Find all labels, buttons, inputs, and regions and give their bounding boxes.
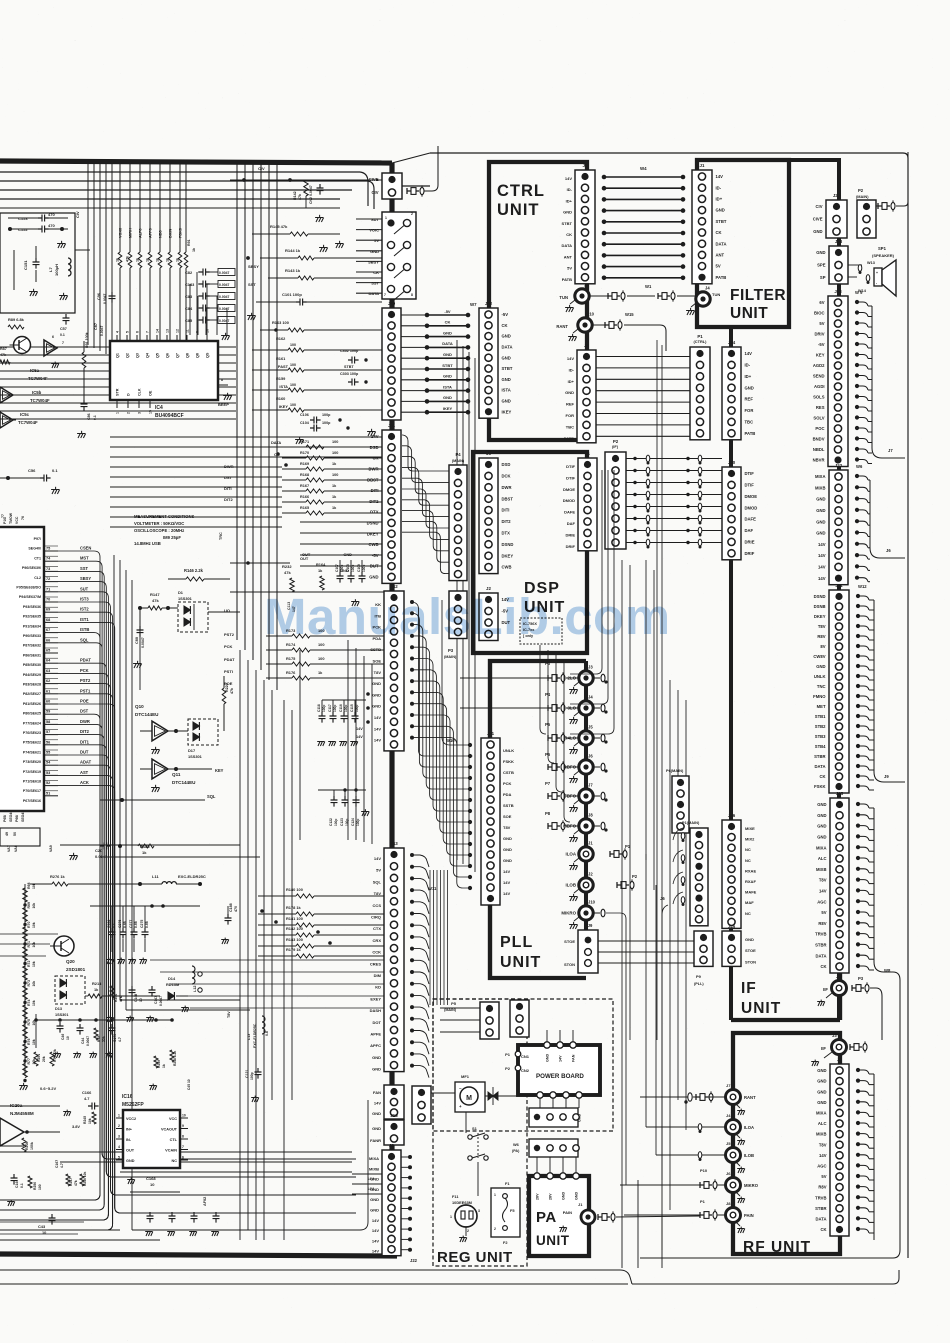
svg-text:CL2: CL2 (34, 576, 41, 580)
svg-text:P81/SE626: P81/SE626 (23, 702, 41, 706)
svg-text:TC7W04F: TC7W04F (28, 376, 48, 381)
svg-text:1k: 1k (142, 850, 147, 855)
svg-text:MIXB: MIXB (816, 1132, 826, 1137)
svg-text:0.1: 0.1 (52, 468, 58, 473)
svg-text:R246 10k: R246 10k (83, 1172, 87, 1186)
svg-text:CIRQ: CIRQ (371, 915, 381, 920)
svg-text:1k: 1k (116, 258, 120, 262)
svg-text:KEY: KEY (215, 768, 224, 773)
svg-text:D: D (127, 393, 131, 396)
ground (54, 362, 56, 364)
svg-text:−: − (459, 1086, 462, 1091)
svg-text:CCS: CCS (373, 903, 382, 908)
svg-text:CIV: CIV (75, 211, 80, 218)
FILTER UNIT box (697, 160, 789, 327)
svg-text:J4: J4 (705, 286, 710, 291)
svg-text:13: 13 (166, 329, 170, 333)
svg-text:CK: CK (566, 232, 572, 237)
svg-text:ILOB: ILOB (744, 1153, 754, 1158)
svg-text:0.6~5.2V: 0.6~5.2V (40, 1086, 56, 1091)
svg-text:Q3: Q3 (136, 353, 140, 358)
svg-text:W1: W1 (645, 284, 652, 289)
buffer IC5c (0, 412, 13, 428)
resistor R91 100k (82, 352, 86, 368)
svg-text:71: 71 (46, 587, 50, 591)
svg-text:J9: J9 (884, 774, 889, 779)
svg-text:PAIN: PAIN (563, 1210, 572, 1215)
svg-text:2: 2 (118, 1124, 120, 1128)
wire P2 plug (876, 205, 880, 207)
RANT cable plugs (693, 1096, 725, 1098)
svg-text:R167: R167 (300, 484, 309, 488)
svg-text:FAN: FAN (373, 1090, 381, 1095)
svg-text:62: 62 (46, 679, 50, 683)
svg-text:PLL: PLL (500, 934, 533, 951)
svg-text:DKEY: DKEY (502, 553, 514, 558)
svg-text:PSTI: PSTI (224, 669, 233, 674)
svg-text:10: 10 (150, 1182, 155, 1187)
svg-text:P80/SE625: P80/SE625 (23, 712, 41, 716)
svg-text:1SS301: 1SS301 (55, 1013, 69, 1017)
svg-text:GND: GND (816, 519, 825, 524)
svg-text:DSNB: DSNB (814, 604, 826, 609)
svg-text:70: 70 (46, 598, 50, 602)
svg-text:5: 5 (118, 1156, 120, 1160)
svg-text:TNC: TNC (817, 684, 826, 689)
svg-text:P77/SE624: P77/SE624 (23, 721, 41, 725)
svg-text:SST: SST (80, 566, 88, 571)
svg-text:0.1: 0.1 (60, 333, 65, 337)
svg-text:SST: SST (248, 282, 256, 287)
svg-text:REF: REF (745, 397, 754, 402)
svg-text:DATA: DATA (815, 1217, 826, 1222)
svg-text:C80: C80 (135, 637, 139, 644)
svg-text:CN2 0.0047: CN2 0.0047 (309, 185, 313, 204)
svg-text:STON: STON (564, 962, 575, 967)
svg-text:GND: GND (817, 813, 826, 818)
svg-text:14V: 14V (819, 1153, 827, 1158)
svg-text:J1: J1 (585, 451, 590, 456)
svg-text:1: 1 (450, 1215, 452, 1219)
svg-text:IC4: IC4 (155, 405, 163, 411)
svg-text:GND: GND (443, 352, 452, 357)
svg-text:R163 100: R163 100 (272, 320, 289, 325)
svg-text:0.0047: 0.0047 (219, 283, 229, 287)
svg-text:10: 10 (206, 329, 210, 333)
svg-text:FOR: FOR (566, 413, 575, 418)
svg-text:W4: W4 (640, 166, 647, 171)
svg-text:DATA: DATA (815, 953, 826, 958)
svg-text:C148: C148 (134, 994, 138, 1002)
svg-text:14V: 14V (818, 565, 826, 570)
svg-text:12: 12 (176, 329, 180, 333)
svg-text:GND: GND (372, 704, 381, 709)
svg-text:47k: 47k (126, 256, 130, 262)
svg-text:MIXA: MIXA (816, 845, 826, 850)
svg-text:IN-: IN- (126, 1138, 132, 1142)
svg-text:SOLV: SOLV (813, 416, 824, 421)
svg-text:GND: GND (370, 1197, 379, 1202)
svg-text:100p: 100p (333, 705, 337, 712)
svg-text:T8V: T8V (374, 670, 382, 675)
svg-text:1: 1 (385, 216, 387, 220)
svg-text:IIF: IIF (823, 987, 828, 992)
svg-text:9: 9 (182, 1124, 184, 1128)
svg-text:J1: J1 (578, 1202, 583, 1207)
svg-text:69: 69 (46, 608, 50, 612)
svg-text:R146 2.2k: R146 2.2k (184, 568, 204, 573)
svg-text:ALC: ALC (818, 856, 827, 861)
connector P9 (PLL) (694, 931, 713, 966)
svg-text:NC: NC (745, 847, 751, 852)
svg-text:VCC: VCC (169, 1117, 177, 1121)
svg-text:GND: GND (817, 1079, 826, 1084)
svg-text:P70/SE617: P70/SE617 (23, 789, 41, 793)
svg-text:J9: J9 (588, 923, 593, 928)
svg-text:ID-: ID- (567, 187, 573, 192)
ground (225, 333, 227, 336)
svg-text:CLK: CLK (138, 388, 142, 396)
svg-text:0.0047: 0.0047 (103, 294, 107, 304)
svg-text:C277: C277 (129, 920, 133, 928)
svg-text:10k: 10k (32, 1000, 36, 1006)
svg-text:IST2: IST2 (80, 607, 89, 612)
svg-text:100p: 100p (322, 705, 326, 712)
svg-text:28V: 28V (536, 1193, 540, 1200)
svg-text:7: 7 (146, 331, 150, 333)
svg-text:R168: R168 (300, 473, 309, 477)
svg-text:R68: R68 (27, 883, 31, 889)
svg-text:W6: W6 (513, 1142, 520, 1147)
svg-text:J8: J8 (726, 1201, 731, 1206)
svg-text:DMOD: DMOD (745, 505, 758, 510)
REG UNIT dashed boundary (433, 999, 613, 1131)
svg-text:14V: 14V (716, 174, 724, 179)
svg-text:14V: 14V (567, 356, 574, 361)
svg-text:DIT2: DIT2 (502, 519, 512, 524)
svg-text:T8V: T8V (819, 1142, 827, 1147)
svg-text:J6: J6 (584, 343, 589, 348)
svg-text:J24: J24 (728, 340, 736, 345)
svg-text:DIT2: DIT2 (369, 499, 379, 504)
main unit bottom border (0, 1254, 397, 1256)
svg-text:R73: R73 (27, 980, 31, 986)
svg-text:DSND: DSND (367, 521, 379, 526)
svg-text:P75/SE622: P75/SE622 (23, 741, 41, 745)
svg-text:100: 100 (290, 363, 296, 367)
svg-text:REF: REF (566, 402, 575, 407)
svg-text:P6(MAIN): P6(MAIN) (666, 768, 684, 773)
svg-text:DWR: DWR (80, 719, 90, 724)
svg-text:R276 1k: R276 1k (50, 874, 66, 879)
svg-text:47k: 47k (230, 688, 234, 694)
svg-text:DITI: DITI (502, 508, 510, 513)
svg-text:CK: CK (502, 323, 508, 328)
svg-text:VCAOUT: VCAOUT (161, 1128, 178, 1132)
coax J1 ILOA (579, 847, 593, 861)
svg-text:3.8V: 3.8V (72, 1124, 80, 1129)
svg-text:R144 1k: R144 1k (285, 248, 301, 253)
wire from pin 67 (0, 633, 100, 1200)
svg-text:MST: MST (80, 556, 89, 561)
bundle J11 to P4 (402, 435, 449, 471)
svg-text:77: 77 (1, 514, 5, 518)
wire from pin 60 (58, 704, 356, 1213)
svg-text:470: 470 (234, 906, 238, 912)
long horizontals lower (60, 844, 240, 846)
svg-text:DATA: DATA (502, 345, 513, 350)
svg-text:R213: R213 (92, 981, 102, 986)
main unit right border spine (389, 163, 394, 1256)
wire bend top (360, 172, 368, 206)
wires P2 to J30 with beads (626, 458, 722, 460)
svg-text:REG UNIT: REG UNIT (437, 1249, 513, 1266)
svg-text:IM9 25pF: IM9 25pF (163, 535, 181, 540)
ground (23, 1083, 25, 1086)
RF UNIT box (733, 1033, 840, 1254)
svg-text:ADAT: ADAT (80, 760, 92, 765)
svg-text:C56: C56 (28, 468, 36, 473)
svg-text:C43: C43 (38, 1224, 46, 1229)
svg-text:RXAF: RXAF (745, 879, 756, 884)
svg-text:IC5a: IC5a (30, 368, 40, 373)
svg-text:-5V: -5V (818, 342, 825, 347)
connector J9 pll STOE/STON (578, 930, 598, 973)
wire (13, 250, 15, 290)
PA UNIT box (529, 1176, 589, 1256)
svg-text:P92/SE635: P92/SE635 (23, 615, 41, 619)
svg-text:P94/SE637/M: P94/SE637/M (19, 595, 41, 599)
svg-text:Q1: Q1 (116, 353, 120, 358)
bus W9 to J7 (871, 306, 873, 448)
svg-text:4: 4 (118, 1145, 120, 1149)
svg-text:R180 100: R180 100 (286, 887, 303, 892)
svg-text:GND: GND (563, 210, 572, 215)
svg-text:68: 68 (46, 618, 50, 622)
svg-text:C45 10: C45 10 (187, 1079, 191, 1090)
wires STOE STON to P9 (598, 940, 694, 942)
svg-text:0.0047: 0.0047 (219, 307, 229, 311)
svg-text:J12: J12 (485, 301, 493, 306)
wire fan W7 (425, 313, 430, 318)
wires ILOA/ILOB/MIKRO to RF (632, 854, 634, 1127)
svg-text:SEG40/: SEG40/ (28, 547, 41, 551)
svg-text:J3: J3 (486, 451, 491, 456)
svg-text:ISTA: ISTA (443, 384, 452, 389)
svg-text:1k: 1k (162, 1064, 166, 1068)
svg-text:R77: R77 (27, 1058, 31, 1064)
svg-text:T8V: T8V (819, 878, 827, 883)
connector FAN strip (384, 1085, 404, 1119)
svg-text:+: + (459, 1104, 462, 1109)
svg-text:J6: J6 (660, 896, 665, 901)
svg-text:0.0047: 0.0047 (100, 326, 104, 336)
svg-text:P1: P1 (700, 1199, 706, 1204)
svg-text:4.7: 4.7 (84, 1096, 89, 1101)
svg-text:J10: J10 (588, 900, 596, 905)
svg-text:C82: C82 (185, 270, 193, 275)
wire from pin 75 (0, 551, 100, 1200)
svg-text:P2: P2 (632, 874, 638, 879)
svg-text:(MAIN): (MAIN) (444, 655, 457, 659)
svg-text:C87: C87 (94, 323, 98, 330)
vertical wire bundle center-left (113, 555, 115, 1000)
svg-text:W10: W10 (446, 738, 455, 743)
svg-text:AGC: AGC (817, 899, 826, 904)
bus W12 to J9 (873, 600, 875, 772)
svg-text:J8: J8 (588, 813, 593, 818)
svg-text:GND: GND (443, 330, 452, 335)
svg-text:CK: CK (820, 964, 826, 969)
svg-text:Q2: Q2 (126, 353, 130, 358)
svg-text:3: 3 (478, 1209, 480, 1213)
svg-text:R169: R169 (300, 462, 309, 466)
unit spine vertical (729, 327, 733, 347)
svg-text:0.1: 0.1 (112, 923, 116, 928)
resistor R91 1k (184, 252, 188, 268)
svg-text:C44: C44 (81, 1038, 85, 1044)
svg-text:14V: 14V (367, 1187, 374, 1191)
svg-text:DRIV: DRIV (814, 332, 824, 337)
svg-text:0.68: 0.68 (145, 921, 149, 928)
svg-text:FOR: FOR (745, 408, 754, 413)
svg-text:ID+: ID+ (716, 197, 723, 202)
svg-text:14V: 14V (559, 1055, 563, 1062)
svg-text:R176: R176 (286, 670, 296, 675)
svg-text:CWB: CWB (368, 542, 378, 547)
svg-text:MF1: MF1 (461, 1074, 470, 1079)
svg-text:PCK: PCK (224, 644, 233, 649)
svg-text:DAFE: DAFE (564, 510, 575, 515)
svg-text:GND: GND (503, 836, 512, 841)
svg-text:SBSY: SBSY (80, 576, 91, 581)
svg-text:IKEY: IKEY (443, 406, 453, 411)
svg-text:C167: C167 (55, 1160, 59, 1168)
PLL UNIT box (490, 661, 586, 978)
svg-text:100: 100 (332, 473, 338, 477)
svg-text:Q7: Q7 (176, 353, 180, 358)
svg-text:IST1: IST1 (80, 617, 89, 622)
svg-text:P72/SE619: P72/SE619 (23, 770, 41, 774)
svg-text:TUN: TUN (712, 292, 720, 297)
svg-text:SEG45: SEG45 (21, 811, 25, 822)
svg-text:GND: GND (126, 1159, 135, 1163)
wires reg (431, 1092, 455, 1094)
svg-text:CTX: CTX (373, 926, 381, 931)
PA top pins (534, 1173, 540, 1179)
svg-text:DST: DST (80, 709, 89, 714)
svg-text:TUN: TUN (559, 295, 568, 300)
svg-text:DMOE: DMOE (563, 487, 575, 492)
svg-text:C276: C276 (118, 920, 122, 928)
svg-text:R89 6.8k: R89 6.8k (8, 317, 25, 322)
svg-text:GND: GND (372, 1111, 381, 1116)
IF unit bottom border (731, 1018, 840, 1022)
svg-text:14V: 14V (371, 434, 379, 439)
svg-text:14V: 14V (374, 738, 381, 743)
vertical feeders to plugs (540, 645, 546, 734)
svg-text:1k: 1k (156, 258, 160, 262)
svg-text:J7: J7 (888, 448, 893, 453)
svg-text:DTIF: DTIF (566, 464, 575, 469)
svg-text:DATA: DATA (561, 243, 572, 248)
svg-text:R245: R245 (83, 1116, 87, 1124)
svg-text:DITI: DITI (224, 486, 232, 491)
svg-text:3: 3 (118, 1135, 120, 1139)
svg-text:POE: POE (224, 681, 233, 686)
CTRL UNIT box (489, 162, 587, 440)
svg-text:C46: C46 (61, 1034, 65, 1040)
svg-text:DMOD: DMOD (563, 498, 575, 503)
svg-text:-: - (876, 281, 877, 285)
svg-text:W6: W6 (856, 464, 863, 469)
svg-text:STOE: STOE (745, 948, 756, 953)
bundle J42-W10 routing (410, 600, 414, 604)
svg-text:CRX: CRX (373, 938, 382, 943)
svg-text:P96/SE639/: P96/SE639/ (22, 566, 41, 570)
svg-text:DATA: DATA (716, 241, 727, 246)
svg-text:RES: RES (816, 405, 825, 410)
svg-text:P2: P2 (858, 188, 864, 193)
svg-text:47k: 47k (74, 1180, 78, 1186)
svg-text:P83/SE628: P83/SE628 (23, 683, 41, 687)
svg-text:14V: 14V (745, 351, 753, 356)
svg-text:NC: NC (745, 911, 751, 916)
svg-text:0.0047: 0.0047 (95, 854, 108, 859)
svg-text:IKEY: IKEY (279, 404, 288, 409)
svg-text:J6: J6 (588, 754, 593, 759)
svg-text:J3: J3 (588, 665, 593, 670)
svg-text:CW8V: CW8V (813, 654, 825, 659)
svg-text:GND: GND (502, 334, 511, 339)
svg-text:R159: R159 (276, 376, 286, 381)
DSP UNIT box (473, 452, 587, 653)
svg-text:58: 58 (46, 720, 50, 724)
svg-text:STOE: STOE (564, 939, 575, 944)
svg-text:GND: GND (817, 1089, 826, 1094)
svg-text:OE: OE (149, 390, 153, 396)
svg-text:14V: 14V (374, 856, 381, 861)
fan blade symbol (488, 1092, 498, 1100)
svg-text:0.0047: 0.0047 (141, 637, 145, 648)
svg-text:DWR: DWR (502, 485, 512, 490)
wires P5 fan (440, 1007, 480, 1009)
svg-text:DCK: DCK (502, 474, 511, 479)
svg-text:0.68: 0.68 (134, 921, 138, 928)
svg-text:MIKRO: MIKRO (561, 911, 576, 916)
svg-text:(PA): (PA) (512, 1149, 520, 1153)
svg-text:(MAIN): (MAIN) (452, 459, 465, 463)
svg-text:R161: R161 (276, 356, 286, 361)
svg-text:SPE: SPE (817, 263, 826, 268)
ground (130, 1178, 132, 1180)
svg-text:IST3: IST3 (80, 597, 89, 602)
svg-text:STBR: STBR (815, 1206, 826, 1211)
svg-text:14V: 14V (374, 726, 381, 731)
svg-text:Q8: Q8 (196, 353, 200, 358)
rf bottom vertical feeders (621, 1185, 623, 1268)
svg-text:L12: L12 (193, 985, 197, 992)
svg-text:P9: P9 (696, 974, 702, 979)
vertical wire bundle x236-280 (236, 163, 238, 640)
svg-text:2: 2 (411, 212, 413, 216)
svg-text:CN1: CN1 (521, 1054, 530, 1059)
svg-text:73: 73 (46, 567, 50, 571)
svg-text:R250: R250 (33, 1182, 37, 1190)
svg-text:8: 8 (221, 378, 223, 382)
svg-text:5V: 5V (376, 868, 381, 873)
svg-text:NJM4558M: NJM4558M (10, 1111, 34, 1116)
